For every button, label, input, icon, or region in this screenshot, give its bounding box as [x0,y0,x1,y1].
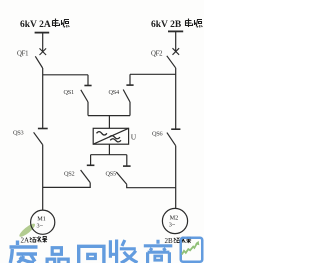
shui glyph [37,236,42,242]
label dian (electric) glyph of 2B source [186,19,193,28]
wire QS1 to merge bar [87,102,89,116]
svg-text:QF2: QF2 [151,51,163,58]
svg-text:6kV 2B: 6kV 2B [151,20,182,30]
watermark logo box with green arrow [181,238,203,262]
svg-text:3~: 3~ [37,223,44,230]
label yuan (source) glyph of 2B source [195,20,203,28]
label 6kV 2B power source text [151,20,182,30]
wire QS4 to merge bar [129,102,131,116]
label yuan (source) glyph of 2A source [62,20,70,28]
watermark character fei (waste) [10,241,38,263]
wire center tap to converter input [108,116,110,129]
wire QS5 drop [126,155,128,166]
disconnector QS2 blade [81,170,91,183]
motor M2 circle [162,208,187,233]
wire merge bar above converter [88,115,130,117]
svg-text:U: U [131,133,137,142]
label 2A feedwater pump text [21,236,48,245]
svg-text:M1: M1 [37,216,46,223]
wire QS2 drop [90,155,92,165]
disconnector QS3 blade [34,132,43,144]
wire from 2A source bar to QF1 [42,33,44,52]
watermark character shang (merchant) [144,240,173,263]
2A source T-bar [35,32,50,34]
disconnector QS1 tick [84,85,91,87]
converter U diagonal [93,128,128,144]
wire converter output down [108,144,110,155]
green rising zigzag arrow [182,243,198,255]
disconnector QS5 tick [123,165,131,167]
watermark character shou (collect) [110,240,137,263]
svg-text:QS1: QS1 [64,89,74,96]
svg-text:M2: M2 [170,215,179,222]
disconnector QS1 blade [81,90,88,102]
wire QS1 drop [87,75,89,86]
svg-text:3~: 3~ [169,222,176,229]
disconnector QS4 tick [126,84,133,86]
wire branch QF2 to QS4 [130,73,176,75]
wire branch QF1 to QS1 [43,74,88,76]
watermark character hui (return) [79,246,104,263]
converter U AC tilde top-left [97,132,107,135]
breaker QF2 cross contact [173,48,180,55]
disconnector QS5 blade [116,172,126,184]
svg-text:QS6: QS6 [152,131,162,138]
watermark character pin (product) [47,248,68,263]
wire split bar below converter [91,154,127,156]
wire left bus QS3 to motor M1 [42,145,44,211]
svg-text:2B: 2B [165,237,174,245]
breaker QF1 cross contact [40,48,47,55]
watermark green leaf swoosh [18,222,37,239]
disconnector QS6 blade [167,133,176,146]
disconnector QS4 blade [123,90,130,103]
label 6kV 2A power source text [20,20,51,30]
beng glyph [186,237,191,243]
beng glyph [42,236,47,242]
svg-text:6kV 2A: 6kV 2A [20,20,51,30]
gei glyph [30,237,37,242]
motor M1 circle [31,210,55,234]
wire QS5 to right bus [127,184,176,187]
svg-text:QF1: QF1 [17,51,28,58]
svg-text:2A: 2A [21,237,30,245]
converter U AC approx bottom-right [109,136,121,142]
wire QS4 drop [129,74,131,85]
wire right bus QF2 down to QS6 [175,68,177,129]
wire left bus QF1 down to QS3 [42,68,44,128]
breaker QF1 blade [35,56,42,68]
2B source T-bar [168,30,183,32]
label dian (electric) glyph of 2A source [53,19,60,28]
disconnector QS6 tick [171,128,180,130]
disconnector QS3 tick [38,128,48,130]
converter U box [93,128,128,144]
svg-text:QS5: QS5 [106,171,116,178]
breaker QF2 blade [167,56,176,68]
svg-text:QS4: QS4 [109,89,120,96]
svg-text:QS3: QS3 [13,130,23,137]
wire from 2B source bar to QF2 [175,31,177,51]
disconnector QS2 tick [87,164,95,166]
gei glyph [174,238,181,243]
svg-text:QS2: QS2 [64,171,74,178]
shui glyph [181,237,186,243]
label 2B feedwater pump text [165,237,192,246]
wire QS2 to left bus [43,183,90,188]
wire right bus QS6 to motor M2 [175,146,177,209]
